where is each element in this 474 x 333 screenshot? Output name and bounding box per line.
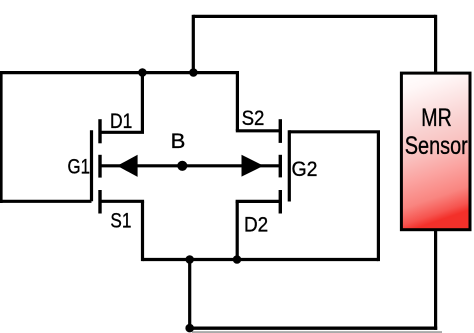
wire: vertical link lower rail to bottom rail [188,260,191,330]
wire: S2 vertical riser [236,71,239,131]
transistor Q1 channel middle bar [98,155,101,178]
node: junction dot on lower rail at x=237 [233,255,242,264]
svg-text:G1: G1 [68,155,91,178]
svg-text:G2: G2 [292,158,318,181]
wire: bottom horizontal rail [190,327,438,330]
transistor Q1 channel bottom bar [98,190,101,214]
node: junction dot upper rail at x=142 [138,68,147,77]
wire: S1 vertical drop [141,201,144,261]
transistor Q1 channel top bar [98,119,101,143]
transistor Q2 channel top bar [279,119,282,143]
wire: D1 vertical riser [141,73,144,133]
svg-text:S2: S2 [242,107,265,130]
svg-text:D2: D2 [244,213,268,236]
svg-text:MR: MR [421,104,452,132]
svg-text:S1: S1 [110,209,131,232]
wire: D2 vertical drop [236,201,239,259]
wire: D2 stub [236,200,281,203]
wire: right top vertical into MR sensor [434,15,437,74]
node: junction dot upper rail at x=193 [189,68,198,77]
svg-text:B: B [171,130,186,153]
node: junction dot on lower rail at x=190 [185,255,194,264]
transistor Q2 gate line [288,130,291,201]
transistor Q2 channel bottom bar [279,190,282,214]
wire: vertical link upper rail to top rail [192,15,195,73]
wire: body rail between Q1 and Q2 [100,164,280,167]
wire: G2 gate lead horizontal [289,130,380,133]
wire: right bottom vertical from MR sensor to bottom rail [434,229,437,330]
node: junction dot bottom-left corner [185,324,194,333]
wire: D1 stub [100,131,144,134]
arrow: Q2 body arrow pointing right [242,155,264,177]
MR sensor box [401,73,470,230]
arrow: Q1 body arrow pointing left [117,155,138,177]
wire: S1 stub [100,200,144,203]
svg-text:Sensor: Sensor [405,132,468,160]
wire: right loop vertical (G2 to lower rail) [377,132,380,261]
wire: upper horizontal rail (G1/D1/S2 net) [0,71,237,74]
transistor Q2 channel middle bar [279,155,282,178]
wire: top horizontal from node above B-rail to MR sensor top [193,15,435,18]
wire: lower horizontal rail (S1/D2/G2 net) [143,258,379,261]
wire: bottom shadow [192,331,442,333]
wire: S2 stub [236,129,280,132]
transistor Q1 gate line [90,130,93,201]
wire: G1 gate lead horizontal [1,200,92,203]
node B: body junction dot [177,161,187,171]
svg-text:D1: D1 [110,110,132,133]
wire: left edge vertical [0,71,3,203]
